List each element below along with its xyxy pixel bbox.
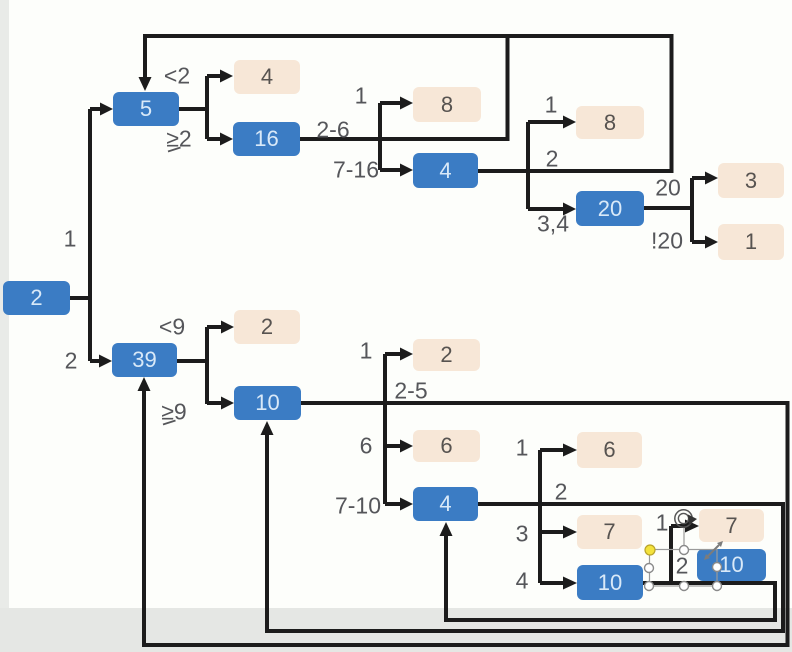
wire feedback from node 10b back to node 4b xyxy=(446,536,775,620)
wire feedback 2-6 from node 16 back to node 5 xyxy=(300,36,508,139)
label 3 xyxy=(516,521,529,548)
wire branch >=2 into node 16 xyxy=(207,137,221,141)
wire branch 1 into box 7b xyxy=(671,526,686,583)
wire node 39 output split xyxy=(176,327,207,404)
label 1 (16 to 8) xyxy=(355,83,368,110)
resize handle mid-right xyxy=(713,563,722,572)
wire branch split x385 from 10 wire xyxy=(383,354,387,504)
label <2 xyxy=(164,63,190,90)
wire branch 7-16 into node 4 xyxy=(380,168,401,172)
label 2 (2 to 39) xyxy=(65,348,78,375)
box 3 (leaf) xyxy=(718,163,784,198)
label 3,4 xyxy=(537,211,569,238)
wire branch 20 into box 3 xyxy=(692,176,706,180)
wire branch 1 into box 8b xyxy=(528,120,564,124)
label 20 xyxy=(655,175,681,202)
label 1 (4b to 6b) xyxy=(516,435,529,462)
box 4 (leaf) xyxy=(234,60,300,94)
arrow up into node 10 bottom xyxy=(261,421,274,435)
label 7-16 xyxy=(333,157,379,184)
yellow adjust handle xyxy=(645,545,655,555)
resize handle bottom-right xyxy=(713,582,722,591)
wire branch 1 into box 8 xyxy=(380,101,401,105)
node 5 xyxy=(113,92,179,126)
wire feedback 2-5 from node 10 back to node 39 xyxy=(144,391,788,645)
label 2-6 xyxy=(316,117,349,144)
wire feedback 2 from node 4 back to node 5 (top line) xyxy=(145,36,672,171)
label 6 xyxy=(360,433,373,460)
box 7a (leaf) xyxy=(577,515,642,549)
rotation handle icon xyxy=(675,510,697,527)
label 2 (4 feedback) xyxy=(546,146,559,173)
label >=9 xyxy=(161,399,186,426)
resize handle bottom-mid xyxy=(680,582,689,591)
arrow up into node 39 bottom xyxy=(138,377,151,391)
box 6b (leaf) xyxy=(577,432,642,468)
wire branch split x540 from 4b wire xyxy=(538,450,542,583)
box 7b (leaf) xyxy=(699,509,764,542)
label <9 xyxy=(159,314,185,341)
diagonal resize arrow icon xyxy=(704,541,723,560)
node 4 xyxy=(413,153,478,188)
wire root 2 output stub xyxy=(70,296,90,300)
wire branch split x528 from 4 wire xyxy=(526,122,530,209)
label 2 (to 10c) xyxy=(676,553,689,580)
label >=2 xyxy=(166,126,191,153)
arrow down into node 5 top xyxy=(139,77,152,91)
wire trunk from node 2 (vertical x90) xyxy=(88,109,92,361)
node 10b xyxy=(577,565,643,600)
box 8 (leaf) xyxy=(413,87,481,122)
label 1 (to 7b) xyxy=(656,510,669,537)
label 1 (10 to 2c) xyxy=(360,338,373,365)
wire branch >=9 into node 10 xyxy=(207,401,222,405)
node 39 xyxy=(112,343,177,377)
box 8b (leaf) xyxy=(576,106,644,139)
node 20 xyxy=(576,191,644,226)
wire branch 4 into node 10b xyxy=(540,581,564,585)
wire branch 6 into box 6a xyxy=(385,444,401,448)
label 1 (2 to 5) xyxy=(64,226,77,253)
wire branch 7-10 into node 4b xyxy=(385,502,401,506)
left gray margin xyxy=(0,0,9,652)
label 2-5 xyxy=(394,378,427,405)
node 4b xyxy=(413,487,478,521)
wire branch 3 into box 7a xyxy=(540,530,564,534)
box 2c (leaf) xyxy=(413,339,480,371)
wire branch 2 into node 39 xyxy=(90,359,100,363)
wire feedback 2 from node 4b back to node 10 xyxy=(267,435,783,631)
rotation handle stem xyxy=(683,528,685,549)
wire branch 3,4 into node 20 xyxy=(528,207,564,211)
box 6a (leaf) xyxy=(413,430,480,462)
selection rectangle xyxy=(650,550,718,587)
box 2b (leaf) xyxy=(234,310,300,344)
resize handle bottom-left xyxy=(645,582,654,591)
node 10c (selected) xyxy=(697,549,766,581)
node 10 xyxy=(234,386,301,420)
wire branch !20 into box 1 xyxy=(692,240,706,244)
node 2 (root) xyxy=(3,281,70,315)
wire branch <9 into box 2b xyxy=(207,325,222,329)
label 1 (4 to 8b) xyxy=(545,92,558,119)
wire branch <2 into box 4 xyxy=(207,74,221,78)
label 7-10 xyxy=(335,493,381,520)
node 16 xyxy=(233,122,300,156)
label 2 (4b feedback) xyxy=(555,479,568,506)
arrow up into node 4b bottom xyxy=(440,522,453,536)
wire node 5 output split xyxy=(179,76,207,139)
wire branch 1 into box 2c xyxy=(385,352,401,356)
label !20 xyxy=(651,228,683,255)
wire node 20 output split xyxy=(644,178,692,242)
wire branch split x380 from 16 wire xyxy=(378,103,382,170)
extra bar of geq-9 glyph xyxy=(163,421,176,425)
bottom gray band xyxy=(0,608,792,652)
resize handle top-mid xyxy=(680,546,689,555)
wire branch 1 into node 5 xyxy=(90,107,101,111)
label 4 xyxy=(516,568,529,595)
wire branch 1 into box 6b xyxy=(540,448,564,452)
resize handle mid-left xyxy=(645,564,654,573)
box 1 (leaf) xyxy=(718,224,784,260)
extra bar of geq-2 glyph xyxy=(168,148,181,152)
